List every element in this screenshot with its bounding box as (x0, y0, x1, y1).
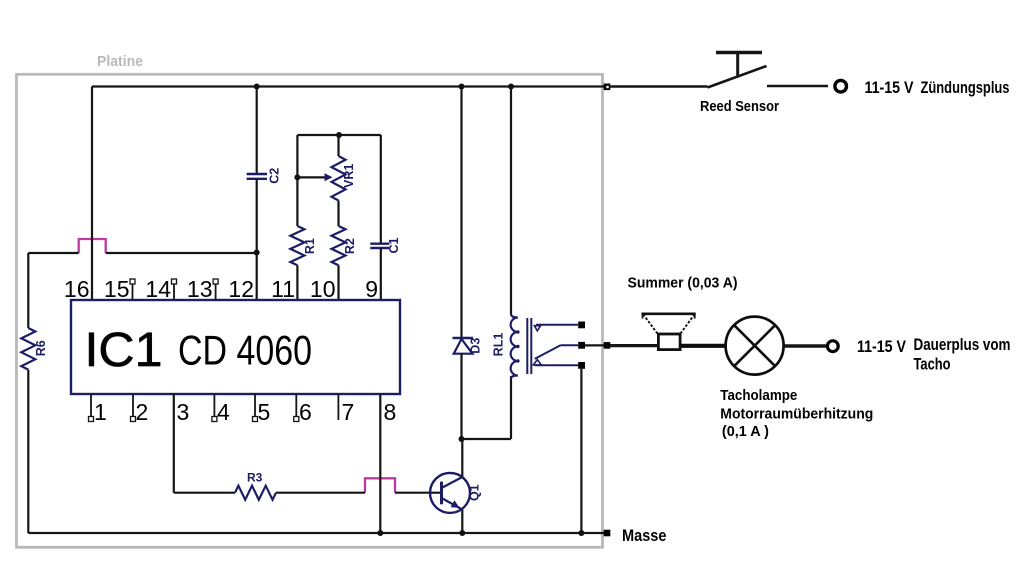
jumper hump over pin8 wire (365, 478, 395, 492)
svg-text:15: 15 (104, 276, 130, 302)
pad relay bottom (578, 362, 585, 369)
svg-text:11-15 V: 11-15 V (865, 79, 914, 97)
node junction ground relay (578, 530, 584, 536)
svg-text:Motorraumüberhitzung: Motorraumüberhitzung (720, 406, 873, 422)
svg-text:RL1: RL1 (492, 333, 506, 357)
buzzer Summer (642, 314, 696, 350)
wire Q1 collector (461, 439, 463, 477)
svg-text:12: 12 (228, 276, 254, 302)
svg-text:Reed Sensor: Reed Sensor (700, 98, 779, 115)
pin 5 stub (253, 394, 258, 422)
wire reed sensor right (767, 85, 828, 88)
wire pin16 vertical (91, 87, 93, 301)
lamp Tacholampe (726, 317, 784, 375)
svg-text:14: 14 (145, 276, 171, 302)
wire reed sensor left (610, 85, 708, 88)
svg-text:6: 6 (299, 399, 312, 425)
wire loop left vertical (296, 135, 298, 226)
svg-text:Masse: Masse (622, 527, 667, 545)
svg-text:16: 16 (64, 276, 90, 302)
pin 7 stub (337, 394, 339, 420)
svg-text:VR1: VR1 (342, 164, 356, 188)
label Tacholampe block (720, 388, 873, 440)
svg-text:7: 7 (342, 399, 355, 425)
wire Q1 emitter (461, 510, 463, 534)
pin 13 stub (213, 279, 218, 300)
svg-text:9: 9 (365, 276, 378, 302)
wire R6 vertical lower (27, 370, 29, 533)
resistor R3 (235, 471, 276, 500)
resistor R1 (290, 226, 317, 265)
svg-text:3: 3 (177, 399, 190, 425)
svg-text:1: 1 (94, 399, 107, 425)
wire hump to Q1 base (395, 492, 442, 494)
wire VR1 to R2 (337, 201, 339, 227)
node junction top rail coil (508, 84, 514, 90)
wire C2 branch upper (256, 87, 258, 175)
op IC1 box (71, 300, 400, 394)
relay RL1 coil (492, 314, 532, 379)
wire loop right vertical (380, 135, 382, 243)
svg-text:8: 8 (384, 399, 397, 425)
wire pin 3 (173, 394, 175, 493)
svg-text:Summer (0,03 A): Summer (0,03 A) (628, 274, 738, 291)
svg-text:5: 5 (258, 399, 271, 425)
wire collector to coil bottom (462, 438, 512, 440)
node junction wiper (294, 174, 300, 180)
switch reed sensor (700, 53, 779, 116)
svg-text:Q1: Q1 (468, 484, 482, 501)
wire D3 vertical lower (460, 354, 462, 439)
wire R2 to pin10 (337, 265, 339, 300)
resistor R2 (332, 226, 358, 265)
capacitor C2 (247, 168, 282, 184)
node junction C2/pin12/R6 (254, 250, 260, 256)
pad relay middle (578, 342, 585, 349)
svg-text:R2: R2 (343, 238, 357, 254)
label Zuendungsplus (865, 79, 1010, 97)
wire C1 to pin9 (380, 248, 382, 300)
svg-text:Platine: Platine (97, 53, 143, 70)
wire bottom rail (28, 532, 604, 534)
node junction VR1 top (336, 132, 342, 138)
wire R6 top branch (28, 252, 256, 254)
pin labels top (64, 276, 378, 302)
svg-text:R6: R6 (34, 340, 48, 356)
terminal Dauerplus (827, 341, 838, 352)
relay contact common blade (535, 345, 578, 359)
svg-text:Zündungsplus: Zündungsplus (921, 79, 1010, 97)
svg-text:C2: C2 (268, 168, 282, 184)
wire pin3 to R3 (174, 492, 235, 494)
wire D3 vertical upper (460, 87, 462, 339)
resistor R6 (21, 328, 48, 370)
node junction top rail C2 (254, 84, 260, 90)
svg-text:C1: C1 (387, 237, 401, 253)
pad border Masse (604, 530, 611, 537)
svg-text:D3: D3 (469, 338, 483, 354)
wire coil top vertical (510, 87, 512, 315)
svg-text:(0,1 A ): (0,1 A ) (722, 424, 769, 440)
label Dauerplus (857, 336, 1011, 374)
svg-text:IC1: IC1 (85, 324, 163, 377)
pin 14 stub (172, 279, 177, 300)
svg-text:Tacho: Tacho (914, 356, 951, 374)
wire lamp to terminal (785, 344, 827, 348)
pad relay top (578, 322, 585, 329)
wire C2 to pin12 (256, 179, 258, 300)
pin 2 stub (131, 394, 136, 422)
wire VR1 loop top (297, 134, 380, 136)
wire relay common to border (585, 344, 604, 346)
svg-text:2: 2 (136, 399, 149, 425)
node junction top rail D3 (459, 84, 465, 90)
wire R1 to pin11 (296, 265, 298, 300)
pin 1 stub (89, 394, 94, 422)
wire pin 8 (379, 394, 381, 533)
wire coil bottom vertical (510, 376, 512, 439)
svg-text:R3: R3 (247, 471, 263, 485)
pad border top rail (604, 84, 611, 91)
node junction ground emitter (459, 530, 465, 536)
wire VR1 wiper (297, 176, 326, 178)
svg-text:R1: R1 (303, 238, 317, 254)
node junction collector (459, 436, 465, 442)
svg-text:11: 11 (271, 276, 295, 302)
diode D3 (453, 338, 483, 354)
jumper hump over pin16 wire (79, 239, 106, 253)
relay contact top fixed (534, 325, 578, 331)
svg-text:11-15 V: 11-15 V (857, 338, 906, 356)
wire top rail (92, 85, 607, 87)
potentiometer VR1 (325, 135, 357, 201)
pin 6 stub (294, 394, 299, 422)
svg-text:13: 13 (187, 276, 213, 302)
wire summer to lamp thick (680, 344, 727, 348)
pin 4 stub (212, 394, 217, 422)
svg-text:CD 4060: CD 4060 (178, 327, 312, 374)
svg-text:4: 4 (217, 399, 230, 425)
wire R6 vertical upper (27, 253, 29, 328)
wire relay bottom to ground (580, 369, 582, 533)
svg-text:10: 10 (310, 276, 336, 302)
pin 15 stub (130, 279, 135, 300)
transistor Q1 (430, 473, 482, 513)
svg-text:Dauerplus vom: Dauerplus vom (914, 336, 1011, 354)
node junction ground pin8 (377, 530, 383, 536)
wire R3 to hump (276, 492, 365, 494)
svg-text:Tacholampe: Tacholampe (720, 388, 797, 404)
relay contact bottom fixed (533, 360, 580, 366)
wire border to summer (610, 344, 659, 347)
pin labels bottom (94, 399, 396, 425)
pad border summer (604, 342, 611, 349)
terminal Zuendungsplus (835, 80, 847, 92)
capacitor C1 (370, 237, 401, 253)
board outline Platine (17, 53, 603, 547)
